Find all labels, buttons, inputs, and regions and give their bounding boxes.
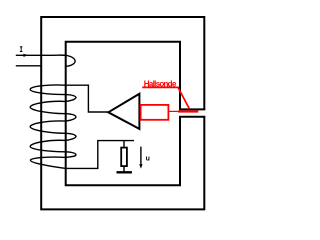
svg-text:u: u <box>146 155 150 162</box>
svg-text:Hallsonde: Hallsonde <box>144 79 177 88</box>
